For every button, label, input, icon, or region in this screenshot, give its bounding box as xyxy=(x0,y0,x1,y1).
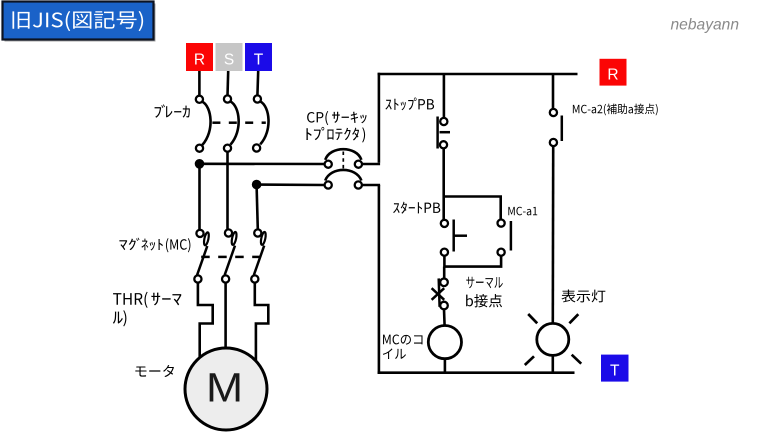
label マグネット(MC) xyxy=(119,238,190,253)
wire breaker to contactor pole1 xyxy=(198,166,201,230)
contactor main contact MC pole2 xyxy=(222,229,237,282)
title box 旧JIS(図記号) xyxy=(3,2,156,42)
svg-text:S: S xyxy=(224,52,234,69)
wire R junction to CP top-left xyxy=(200,163,325,166)
label サーマル b接点 xyxy=(466,277,503,308)
top bus R line xyxy=(378,73,578,76)
label MCのコイル xyxy=(383,335,423,360)
phase label T (top) xyxy=(245,43,272,71)
svg-text:nebayann: nebayann xyxy=(671,16,740,33)
label 表示灯 xyxy=(561,290,605,303)
node R-phase junction xyxy=(195,159,205,169)
label MC-a1 xyxy=(508,207,537,216)
phase label R (right) xyxy=(600,59,627,86)
wire T box to breaker pole3 xyxy=(256,71,259,96)
left rail upper segment xyxy=(378,73,381,163)
phase label T (right) xyxy=(601,355,629,382)
bottom bus T line xyxy=(378,371,575,374)
left rail lower segment xyxy=(378,185,381,374)
svg-text:R: R xyxy=(607,67,618,84)
phase label R (top) xyxy=(186,43,213,71)
label ブレーカ xyxy=(155,104,190,117)
label MC-a2(補助a接点) xyxy=(573,104,658,116)
wire S box to breaker pole2 xyxy=(226,71,229,96)
contactor coil MC xyxy=(428,326,461,373)
node T-phase junction xyxy=(252,180,262,190)
wire join to thermal contact xyxy=(443,267,446,279)
breaker CB pole1 xyxy=(196,96,211,152)
stop pushbutton PB-b xyxy=(438,74,450,221)
contactor main contact MC pole3 xyxy=(251,229,266,282)
CP linkage dashed line xyxy=(342,152,344,170)
thermal relay b-contact THR-b xyxy=(432,278,448,325)
svg-text:T: T xyxy=(254,52,264,69)
circuit protector CP pole2 xyxy=(325,170,362,189)
breaker linkage dashed line xyxy=(212,121,220,124)
svg-text:M: M xyxy=(206,365,243,411)
label THR(サーマル) xyxy=(113,292,182,327)
auxiliary contact MC-a1 xyxy=(498,220,511,256)
wire CP bottom-right to left rail xyxy=(362,184,380,187)
thermal relay heater THR pole2 xyxy=(224,283,227,349)
wire junction to MC-a1 branch xyxy=(444,197,501,220)
label ストップPB xyxy=(385,97,434,110)
label スタートPB xyxy=(393,202,440,214)
wire breaker to contactor pole2 xyxy=(226,151,229,229)
label CP(サーキットプロテクタ) xyxy=(306,111,366,143)
phase label S (top) xyxy=(216,43,243,71)
breaker CB pole3 xyxy=(253,95,269,151)
circuit protector CP pole1 xyxy=(325,149,362,168)
motor M xyxy=(185,348,267,430)
wire PB-a bottom join xyxy=(444,256,501,267)
thermal relay heater THR pole3 xyxy=(255,283,268,361)
label モータ xyxy=(135,365,174,377)
wire CP top-right to left rail xyxy=(362,163,380,166)
thermal relay heater THR pole1 xyxy=(198,283,213,359)
wire R box to breaker pole1 xyxy=(198,71,201,96)
wire breaker to contactor pole3 xyxy=(257,186,258,229)
contactor main contact MC pole1 xyxy=(194,230,209,283)
indicator lamp PL xyxy=(525,314,581,373)
auxiliary contact MC-a2 xyxy=(550,74,562,323)
svg-text:T: T xyxy=(610,363,620,380)
svg-text:R: R xyxy=(194,52,205,69)
contactor linkage dashed line xyxy=(201,256,210,259)
start pushbutton PB-a xyxy=(441,220,467,256)
wire T junction to CP bottom-left xyxy=(257,183,325,186)
breaker CB pole2 xyxy=(224,95,239,151)
